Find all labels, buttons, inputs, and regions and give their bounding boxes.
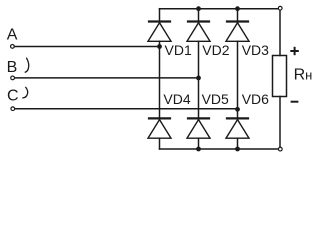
node junction dot A on leg1 bbox=[157, 44, 162, 49]
diode VD2 bbox=[187, 22, 210, 42]
svg-text:A: A bbox=[7, 27, 18, 44]
wire phase A line bbox=[15, 46, 160, 48]
diode VD1 bbox=[148, 22, 171, 42]
wire right vertical from + terminal to resistor bbox=[279, 10, 281, 55]
terminal phase A bbox=[11, 45, 15, 49]
wire top rail bbox=[160, 8, 278, 10]
svg-text:VD1: VD1 bbox=[165, 42, 192, 58]
terminal - output bottom-right bbox=[278, 147, 282, 151]
wire leg3 VD6 to bottom rail bbox=[237, 138, 239, 149]
wire leg2 VD2 to VD5 (node B junction) bbox=[198, 41, 200, 118]
diode VD6 bbox=[226, 118, 249, 138]
node junction dot B on leg2 bbox=[196, 76, 201, 81]
svg-text:B: B bbox=[7, 59, 18, 76]
diode VD4 bbox=[148, 118, 171, 138]
wire leg1 VD4 to bottom rail bbox=[159, 138, 161, 149]
node junction dot top of VD2 bbox=[196, 6, 201, 11]
wire stray mark after C bbox=[23, 87, 28, 98]
node junction dot C on leg3 bbox=[235, 107, 240, 112]
wire stray mark after B bbox=[25, 58, 28, 72]
svg-text:C: C bbox=[7, 88, 19, 105]
wire phase B line bbox=[15, 77, 199, 79]
label + polarity bbox=[290, 47, 299, 55]
node junction dot bottom of VD5 bbox=[196, 147, 201, 152]
wire leg2 top rail to VD2 bbox=[198, 9, 200, 21]
terminal phase C bbox=[11, 107, 15, 111]
wire leg2 VD5 to bottom rail bbox=[198, 138, 200, 149]
wire leg1 VD1 to VD4 (node A junction) bbox=[159, 41, 161, 118]
svg-text:VD2: VD2 bbox=[202, 42, 229, 58]
wire from resistor bottom to - terminal bbox=[279, 97, 281, 147]
svg-text:VD3: VD3 bbox=[242, 42, 269, 58]
diode VD5 bbox=[187, 118, 210, 138]
terminal phase B bbox=[11, 76, 15, 80]
terminal + output top-right bbox=[278, 6, 282, 10]
wire phase C line bbox=[15, 108, 238, 110]
wire leg1 top rail to VD1 bbox=[159, 9, 161, 21]
svg-text:Rн: Rн bbox=[294, 67, 313, 84]
diode VD3 bbox=[226, 22, 249, 42]
wire bottom rail bbox=[160, 148, 278, 150]
svg-text:VD4: VD4 bbox=[163, 91, 190, 107]
resistor RH body bbox=[273, 56, 287, 97]
label - polarity bbox=[291, 101, 299, 103]
node junction dot bottom of VD6 bbox=[235, 147, 240, 152]
svg-text:VD5: VD5 bbox=[202, 91, 229, 107]
wire leg3 VD3 to VD6 (node C junction) bbox=[237, 41, 239, 118]
node junction dot top of VD3 bbox=[235, 6, 240, 11]
svg-text:VD6: VD6 bbox=[242, 91, 269, 107]
wire leg3 top rail to VD3 bbox=[237, 9, 239, 21]
